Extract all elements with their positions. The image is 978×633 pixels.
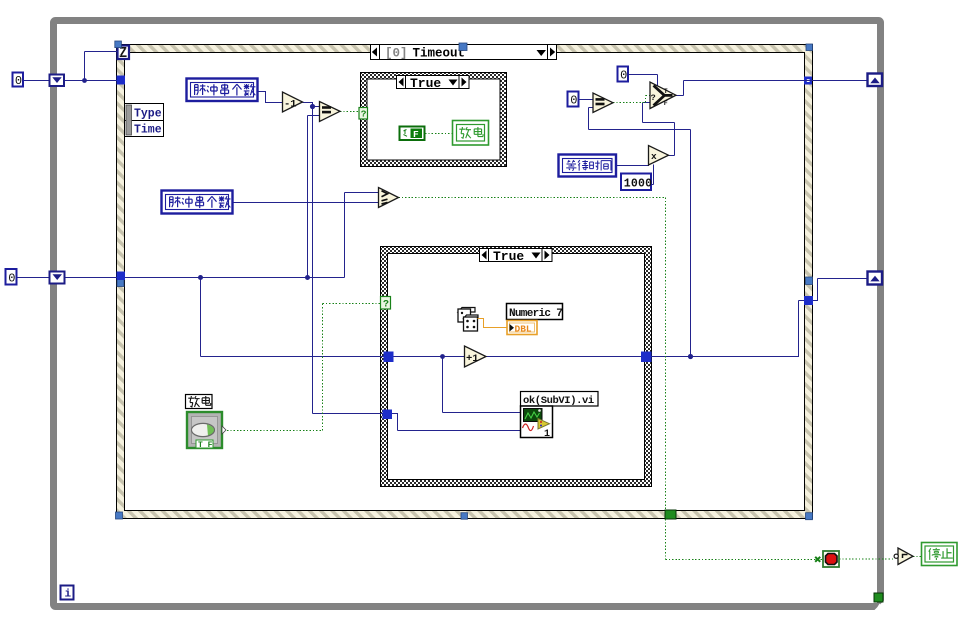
wire: equals out to select S input [613,96,651,103]
event border tunnel A (left, y80) [117,76,126,85]
svg-text:Time: Time [134,124,162,137]
svg-text:T F: T F [198,441,213,450]
wire: wait time to multiply [616,165,649,167]
inner case selector label True [480,249,553,264]
wire: 1000 to multiply [651,165,654,185]
left shift register 2 [50,272,65,284]
discharge control icon (boolean slide) [187,412,226,450]
upper case selector label True [397,76,470,91]
event structure border [117,45,813,519]
svg-text:[0]Timeout: [0]Timeout [385,47,465,61]
increment node +1 [465,346,487,367]
discharge control label 放电 [186,395,213,409]
discharge indicator 放电 (in upper case) [453,121,489,146]
control terminal pulse count 2 脉冲串个数 [162,191,233,214]
svg-text:True: True [410,76,441,91]
control terminal wait time 等待时间 [559,155,617,177]
wire: select out to right shift register 1 [676,81,868,96]
svg-text:T: T [664,88,668,95]
svg-text:Numeric 7: Numeric 7 [509,308,562,320]
svg-text:-1: -1 [284,99,297,111]
event selector label [0] Timeout [371,45,557,61]
event timeout terminal (hourglass) [118,46,130,60]
wire: multiply out to select F input [643,103,675,156]
wire: 0 const to right equals top input [579,99,594,101]
wire: right equals bottom input from count junction [589,108,691,357]
DBL indicator [507,321,537,335]
svg-text:F: F [413,129,419,140]
event border tunnel (right, y300) [804,296,813,305]
wire: equals out to upper case ? tunnel [340,111,359,113]
wire: NOT out to stop indicator [913,556,921,558]
svg-text:?: ? [361,109,367,120]
select node [650,82,676,109]
svg-text:Type: Type [134,108,162,121]
wire: count branch up to equals bottom input [308,116,320,278]
wire: conditional terminal out to NOT gate [839,558,895,560]
wire: left SR1 to event tunnel A with branch up to timeout terminal [64,52,118,81]
numeric constant 0 (right equals input) [568,92,579,108]
upper case selector tunnel ? [359,108,368,120]
svg-text:?: ? [651,93,656,103]
wire: inner case main count wire with +1 [394,356,642,358]
equals node (left) [320,102,341,122]
multiply node [649,146,669,166]
boolean wires (green dotted) [227,96,921,560]
svg-text:DBL: DBL [515,324,532,335]
right shift register 2 [868,272,883,285]
svg-text:F: F [664,100,668,107]
wire: branch to subVI input 1 [443,357,521,413]
wire: 0 const to left shift register 1 [23,80,50,82]
svg-text:0: 0 [8,272,15,286]
inner case structure (True) [381,247,652,487]
wire junction dots [82,78,693,359]
wire: >= out down through green tunnel to conditional terminal [399,198,824,560]
loop output tunnel (green) [874,593,883,602]
green wire junction x [815,557,820,562]
wire: 0 const 2 to left shift register 2 [17,277,117,279]
numeric constant 0 (top right) [618,67,629,83]
wire: tunnel 2 to subVI input 2 [392,414,521,431]
left shift register 1 [50,75,65,87]
svg-text:True: True [493,249,524,264]
svg-text:0: 0 [620,69,627,83]
subVI icon [521,406,553,440]
dice icon (random number) [458,308,478,332]
greater or equal node [379,188,399,208]
upper case structure (True) [361,73,507,167]
svg-text:+1: +1 [466,353,479,365]
selection handles of event structure [115,41,813,520]
event border tunnel (bottom, green) [665,510,676,519]
svg-text:ok(SubVI).vi: ok(SubVI).vi [523,395,594,407]
inner case selector tunnel ? [381,297,391,311]
event border tunnel (top right, hollow, y80) [804,77,812,85]
Numeric 7 label [507,304,563,321]
wire: inner case out to right tunnel and right shift register 2 [652,279,868,357]
inner case tunnels (blue) [384,352,394,363]
NOT gate [894,548,913,565]
svg-text:x: x [651,151,657,162]
false boolean constant [400,127,425,141]
right shift register 1 [868,74,883,87]
svg-text:i: i [65,589,72,601]
wire: discharge control to inner case ? tunnel [227,304,381,431]
iteration terminal i [61,586,74,601]
subVI label ok(SubVI).vi [521,392,599,407]
numeric constant 0 (left, second) [6,269,17,286]
decrement node -1 [283,92,303,112]
numeric wires (navy) [17,52,868,431]
wire: count from tunnel B to >= top input [125,193,379,278]
svg-text:?: ? [383,300,389,311]
numeric constant 0 (top left) [13,73,24,89]
event data node Type/Time [125,104,164,137]
orange wire dice to DBL [478,319,508,328]
svg-text:0: 0 [570,94,577,108]
wire: count branch down into inner case left tunnel [201,278,384,357]
conditional terminal (stop if true) [823,551,839,567]
equals node (right) [593,93,613,113]
wire: 0 const top to select T input [629,75,658,88]
while loop [54,21,885,611]
numeric constant 1000 [621,174,652,191]
event border tunnel B (left, y277) [117,272,126,281]
svg-text:0: 0 [15,74,22,88]
stop indicator 停止 [922,543,958,566]
wire: false const to discharge indicator [425,133,453,135]
wire: pulse count 2 to >= bottom input [233,202,379,204]
wire: pulse count 1 to decrement input [258,92,283,103]
control terminal pulse count 1 脉冲串个数 [187,79,258,102]
wire: decrement out to equals top input and down to inner case tunnel 2 [303,103,383,414]
svg-text:1000: 1000 [624,178,652,191]
svg-text:1: 1 [544,429,550,440]
